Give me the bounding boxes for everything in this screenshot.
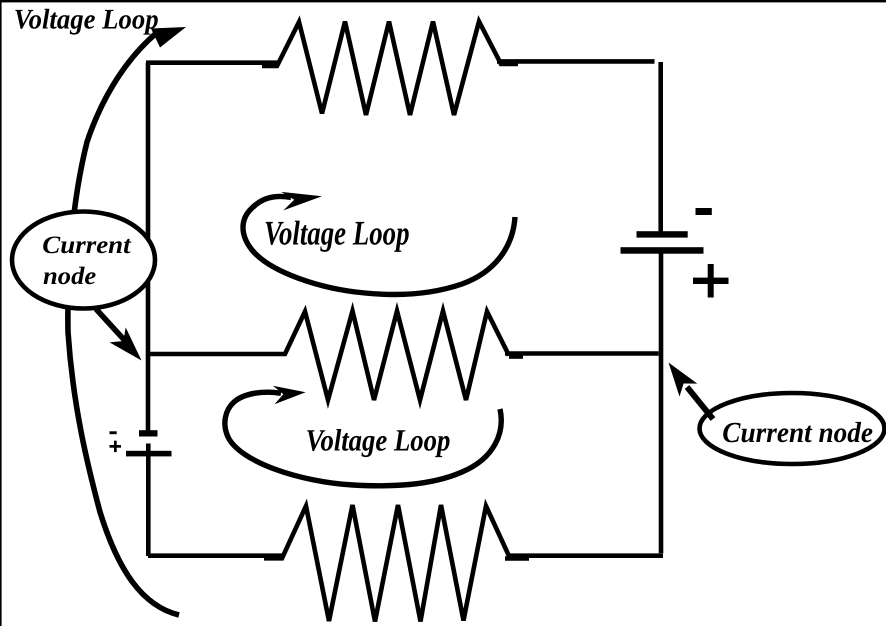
svg-text:Voltage Loop: Voltage Loop [14, 5, 159, 36]
svg-text:Current node: Current node [722, 417, 873, 449]
svg-text:Voltage Loop: Voltage Loop [264, 214, 410, 252]
svg-text:Current: Current [42, 232, 131, 259]
svg-text:node: node [43, 263, 96, 290]
svg-text:Voltage Loop: Voltage Loop [306, 423, 451, 458]
